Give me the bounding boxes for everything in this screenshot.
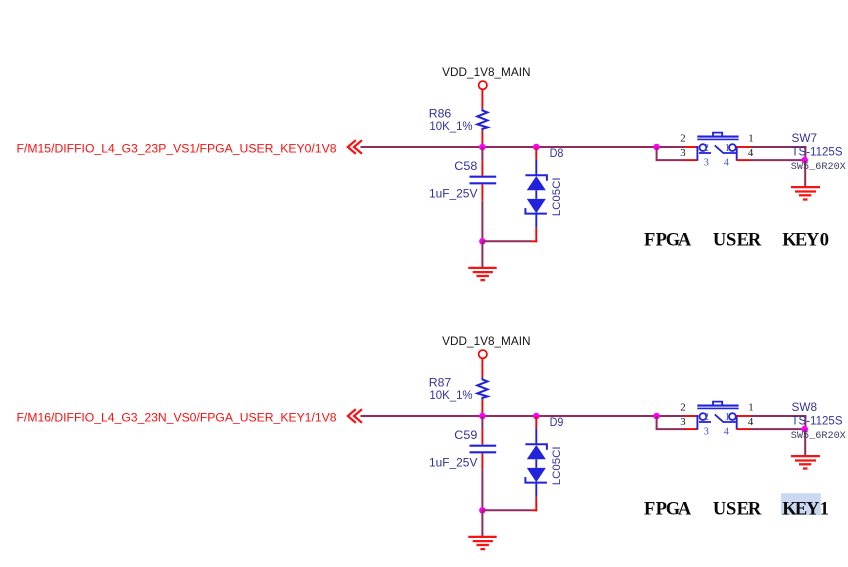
- svg-text:2: 2: [704, 412, 709, 423]
- svg-text:U: U: [713, 500, 726, 520]
- svg-text:2: 2: [680, 402, 685, 414]
- capacitor C59 pin 2: [481, 453, 483, 469]
- svg-text:SW5_6R20X: SW5_6R20X: [791, 161, 846, 172]
- svg-text:SW7: SW7: [792, 131, 818, 145]
- node ground junction: [479, 238, 486, 245]
- wire node to ground: [481, 241, 483, 267]
- switch symbol pin digit 3: [704, 157, 709, 168]
- switch SW7 body: [697, 133, 738, 161]
- svg-text:2: 2: [704, 143, 709, 154]
- diode D8 body TVS: [525, 160, 547, 228]
- ground (capacitor branch): [468, 268, 496, 280]
- svg-text:D9: D9: [550, 415, 564, 429]
- node ground junction: [479, 507, 486, 514]
- svg-text:3: 3: [680, 147, 685, 159]
- resistor R86 pin 2: [481, 131, 483, 146]
- diode D9 refdes: [550, 415, 564, 429]
- wire jumper to pin3: [656, 416, 685, 429]
- svg-text:1: 1: [748, 402, 753, 414]
- switch SW8 footprint SW5_6R20X: [791, 430, 846, 441]
- wire node to switch ground: [804, 160, 806, 187]
- diode D9 pin 1 stub: [535, 416, 537, 429]
- title text FPGA USER KEY0: [644, 231, 829, 251]
- svg-text:S: S: [726, 500, 736, 520]
- pin number 4: [748, 416, 754, 428]
- pin number 1: [748, 402, 753, 414]
- capacitor C58 refdes: [454, 159, 477, 173]
- switch symbol pin digit 2: [704, 143, 709, 154]
- pin number 4: [748, 147, 754, 159]
- svg-text:10K_1%: 10K_1%: [429, 388, 472, 402]
- diode D8 pin 1 stub: [535, 147, 537, 160]
- power net VDD_1V8_MAIN: [442, 66, 530, 79]
- switch symbol pin digit 4: [724, 426, 729, 437]
- wire main horizontal net: [361, 415, 685, 417]
- wire capacitor to ground node: [481, 201, 483, 242]
- capacitor C58 pin 2: [481, 184, 483, 200]
- wire capacitor to ground node: [481, 470, 483, 511]
- svg-text:C59: C59: [454, 428, 477, 442]
- switch symbol pin digit 4: [724, 157, 729, 168]
- svg-text:R: R: [748, 500, 762, 520]
- svg-text:VDD_1V8_MAIN: VDD_1V8_MAIN: [442, 335, 530, 348]
- highlight on KEY text: [781, 493, 821, 515]
- wire ground node to diode: [482, 509, 531, 511]
- wire node to switch ground: [804, 429, 806, 456]
- svg-text:1uF_25V: 1uF_25V: [429, 186, 478, 200]
- node diode top: [533, 144, 540, 151]
- FPGA USER KEY1 circuit: [17, 335, 846, 549]
- svg-text:TS-1125S: TS-1125S: [792, 413, 843, 427]
- resistor R87 pin 1: [481, 359, 483, 378]
- switch SW7 pin 2 stub: [685, 146, 698, 148]
- switch symbol pin digit 1: [725, 412, 730, 423]
- switch symbol pin digit 3: [704, 426, 709, 437]
- ground (capacitor branch): [468, 537, 496, 549]
- node resistor/cap junction: [479, 144, 486, 151]
- switch SW8 part TS-1125S: [792, 413, 843, 427]
- wire pin4 to node: [751, 428, 806, 430]
- diode D9 pin 2 stub: [532, 497, 538, 512]
- capacitor C58 plates: [470, 177, 497, 184]
- svg-text:4: 4: [748, 416, 754, 428]
- switch SW8 pin 4 stub: [737, 428, 751, 430]
- node diode top: [533, 413, 540, 420]
- switch SW7 pin 4 stub: [737, 159, 751, 161]
- diode D9 body TVS: [525, 429, 547, 497]
- svg-text:A: A: [678, 500, 692, 520]
- wire node to capacitor: [481, 147, 483, 160]
- pin number 3: [680, 147, 685, 159]
- wire main horizontal net: [361, 146, 685, 148]
- wire node to capacitor: [481, 416, 483, 429]
- capacitor C59 pin 1: [481, 429, 483, 444]
- svg-text:Y: Y: [806, 231, 820, 251]
- svg-text:F: F: [644, 500, 655, 520]
- switch SW7 pin 3 stub: [685, 159, 698, 161]
- switch SW7 footprint SW5_6R20X: [791, 161, 846, 172]
- svg-text:4: 4: [724, 426, 729, 437]
- node main net to switch: [653, 144, 660, 151]
- capacitor C59 refdes: [454, 428, 477, 442]
- switch SW8 pin 2 stub: [685, 415, 698, 417]
- diode D9 value LC05CI: [551, 446, 563, 485]
- pin number 2: [680, 402, 685, 414]
- svg-text:F/M15/DIFFIO_L4_G3_23P_VS1/FPG: F/M15/DIFFIO_L4_G3_23P_VS1/FPGA_USER_KEY…: [17, 143, 337, 155]
- svg-text:1: 1: [725, 143, 730, 154]
- resistor R87 body: [477, 377, 487, 399]
- svg-text:LC05CI: LC05CI: [551, 177, 563, 216]
- net label F/M16/DIFFIO_L4_G3_23N_VS0/FPGA_USER_KEY1/1V8: [17, 412, 337, 424]
- svg-text:1: 1: [820, 500, 829, 520]
- switch SW7 part TS-1125S: [792, 144, 843, 158]
- svg-text:1: 1: [725, 412, 730, 423]
- ground (switch branch): [791, 456, 820, 468]
- off-page connector chevron: [348, 140, 362, 154]
- svg-text:TS-1125S: TS-1125S: [792, 144, 843, 158]
- switch symbol pin digit 1: [725, 143, 730, 154]
- diode D8 value LC05CI: [551, 177, 563, 216]
- node switch ground junction: [801, 426, 808, 433]
- net label F/M15/DIFFIO_L4_G3_23P_VS1/FPGA_USER_KEY0/1V8: [17, 143, 337, 155]
- pin number 1: [748, 133, 753, 145]
- capacitor C59 plates: [470, 446, 497, 453]
- wire node to ground: [481, 510, 483, 536]
- power net VDD_1V8_MAIN: [442, 335, 530, 348]
- svg-text:3: 3: [680, 416, 685, 428]
- svg-text:0: 0: [820, 231, 829, 251]
- node switch ground junction: [801, 157, 808, 164]
- resistor R87 pin 2: [481, 400, 483, 415]
- svg-text:U: U: [713, 231, 726, 251]
- svg-text:SW5_6R20X: SW5_6R20X: [791, 430, 846, 441]
- svg-text:LC05CI: LC05CI: [551, 446, 563, 485]
- wire jumper to pin3: [656, 147, 685, 160]
- svg-text:A: A: [678, 231, 692, 251]
- svg-text:SW8: SW8: [792, 400, 818, 414]
- svg-text:1: 1: [748, 133, 753, 145]
- svg-text:10K_1%: 10K_1%: [429, 119, 472, 133]
- capacitor C58 value 1uF_25V: [429, 186, 478, 200]
- switch symbol pin digit 2: [704, 412, 709, 423]
- resistor R87 refdes: [429, 376, 452, 390]
- node resistor/cap junction: [479, 413, 486, 420]
- svg-text:4: 4: [724, 157, 729, 168]
- svg-text:VDD_1V8_MAIN: VDD_1V8_MAIN: [442, 66, 530, 79]
- resistor R86 body: [477, 108, 487, 130]
- wire pin4 to node: [751, 159, 806, 161]
- ground (switch branch): [791, 187, 820, 199]
- wire pin1 to corner: [751, 416, 807, 429]
- svg-text:2: 2: [680, 133, 685, 145]
- svg-text:3: 3: [704, 426, 709, 437]
- svg-text:1uF_25V: 1uF_25V: [429, 455, 478, 469]
- wire pin1 to corner: [751, 147, 807, 160]
- resistor R87 value 10K_1%: [429, 388, 472, 402]
- resistor R86 value 10K_1%: [429, 119, 472, 133]
- switch SW8 pin 1 stub: [737, 415, 751, 417]
- switch SW8 pin 3 stub: [685, 428, 698, 430]
- FPGA USER KEY0 circuit: [17, 66, 846, 280]
- pin number 3: [680, 416, 685, 428]
- power symbol circle: [479, 81, 487, 89]
- resistor R86 refdes: [429, 107, 452, 121]
- title text FPGA USER KEY1: [644, 500, 829, 520]
- switch SW8 body: [697, 402, 738, 430]
- svg-text:3: 3: [704, 157, 709, 168]
- capacitor C59 value 1uF_25V: [429, 455, 478, 469]
- svg-text:D8: D8: [550, 146, 564, 160]
- switch SW8 refdes: [792, 400, 818, 414]
- svg-text:F/M16/DIFFIO_L4_G3_23N_VS0/FPG: F/M16/DIFFIO_L4_G3_23N_VS0/FPGA_USER_KEY…: [17, 412, 337, 424]
- svg-text:C58: C58: [454, 159, 477, 173]
- off-page connector chevron: [348, 409, 362, 423]
- capacitor C58 pin 1: [481, 160, 483, 175]
- svg-text:F: F: [644, 231, 655, 251]
- resistor R86 pin 1: [481, 90, 483, 109]
- pin number 2: [680, 133, 685, 145]
- switch SW7 refdes: [792, 131, 818, 145]
- svg-text:R: R: [748, 231, 762, 251]
- diode D8 refdes: [550, 146, 564, 160]
- svg-text:Y: Y: [806, 500, 820, 520]
- switch SW7 pin 1 stub: [737, 146, 751, 148]
- svg-text:S: S: [726, 231, 736, 251]
- svg-text:4: 4: [748, 147, 754, 159]
- diode D8 pin 2 stub: [532, 228, 538, 243]
- power symbol circle: [479, 350, 487, 358]
- wire ground node to diode: [482, 240, 531, 242]
- node main net to switch: [653, 413, 660, 420]
